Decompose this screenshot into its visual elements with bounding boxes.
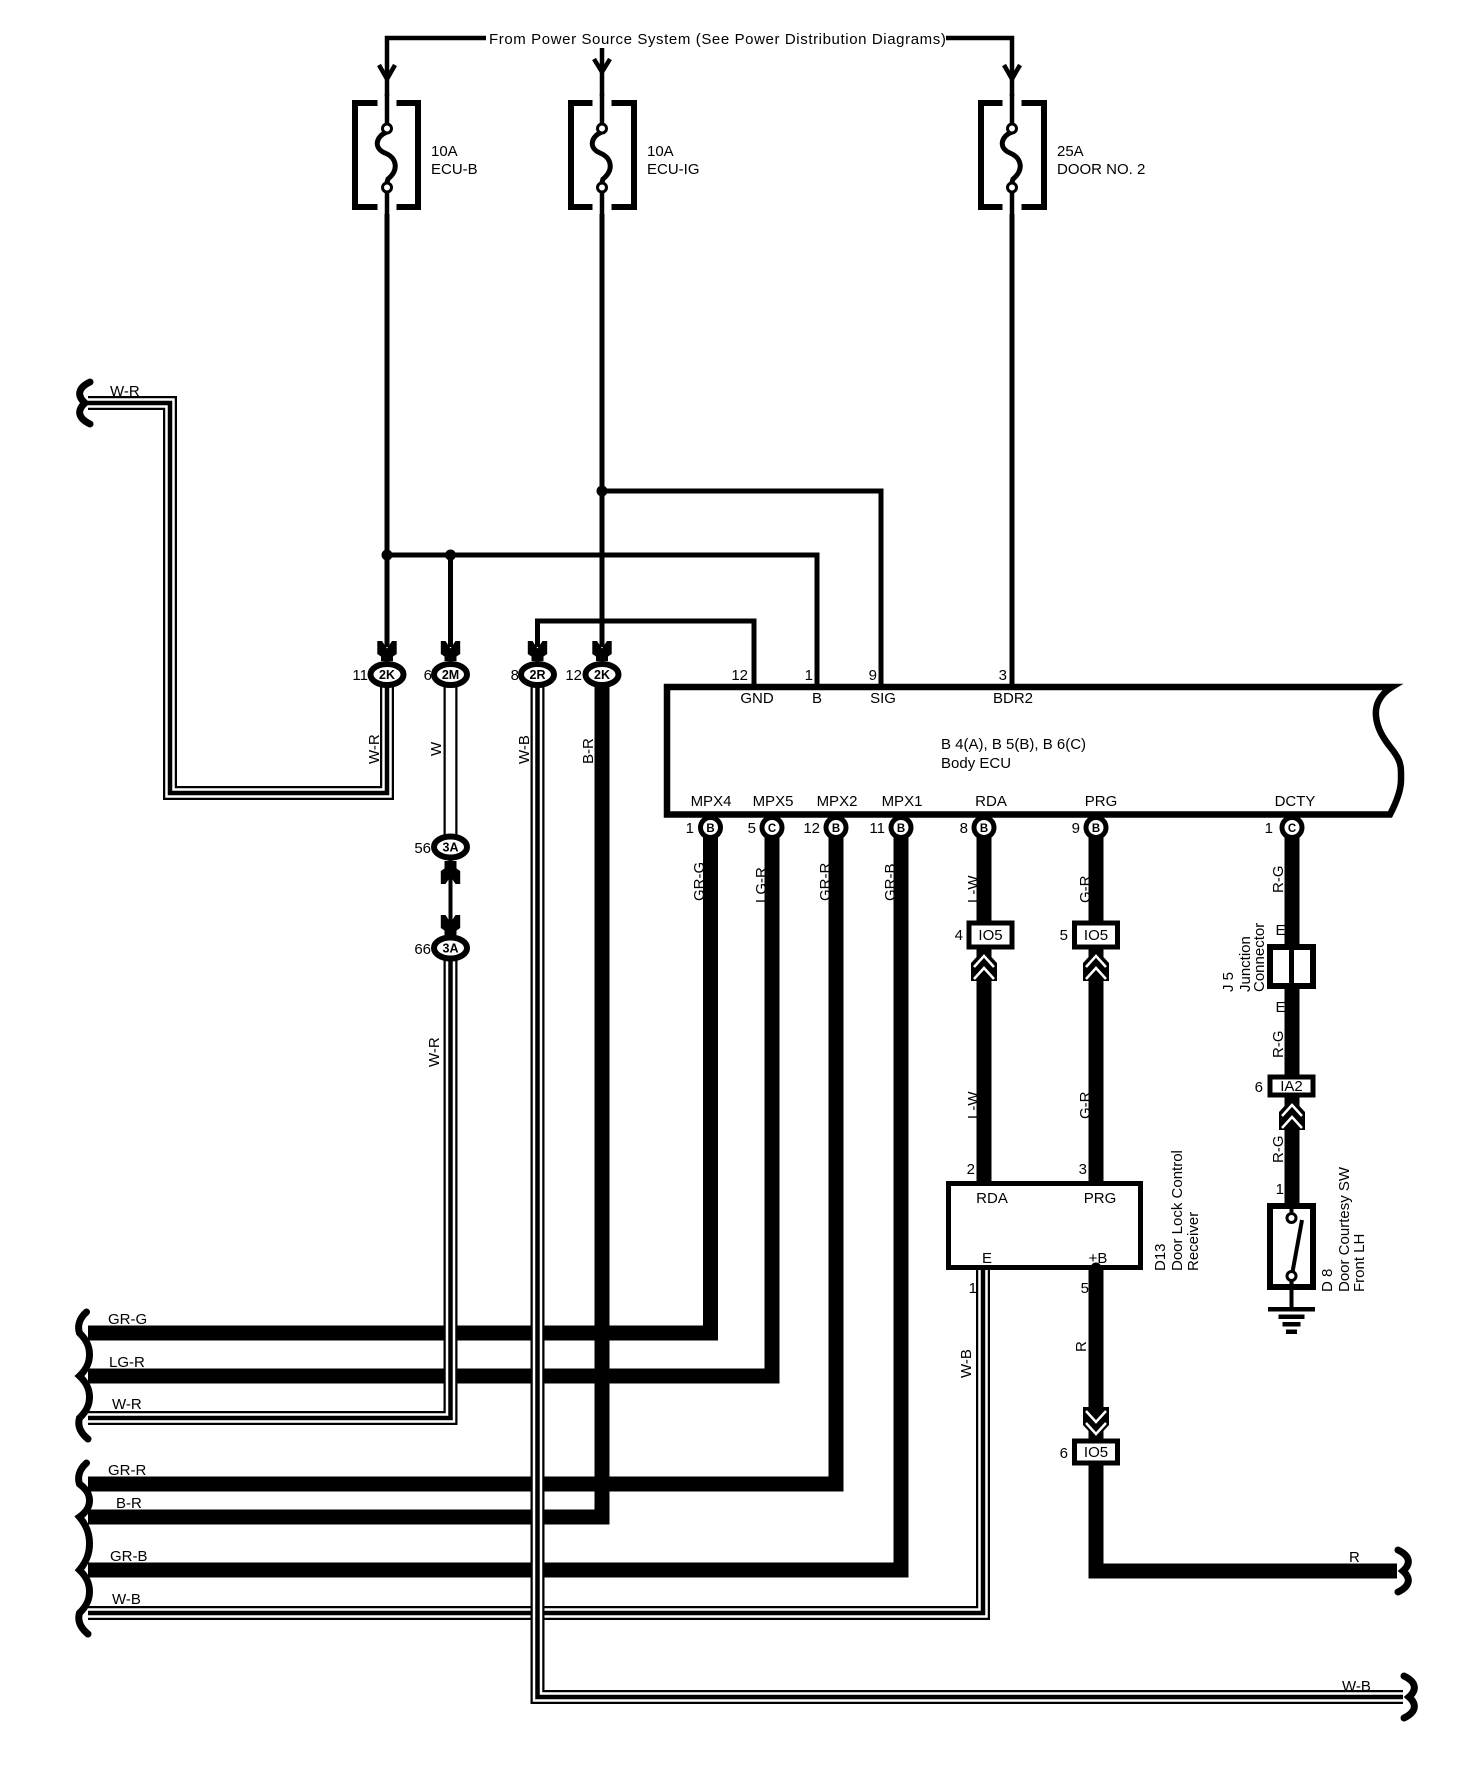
box Body ECU B4(A) B5(B) B6(C) (667, 687, 1401, 815)
wire LG-R (MPX5 pin to left edge) (88, 830, 772, 1376)
connector 2R pin8 (521, 641, 554, 685)
arrow into connector IO5-5 (up) (1083, 949, 1109, 981)
svg-text:6: 6 (1060, 1445, 1068, 1462)
wire GR-R (MPX2 pin to left edge) (88, 830, 836, 1484)
svg-text:Door Lock Control: Door Lock Control (1169, 1150, 1186, 1271)
wire node SIG: branch to Body ECU pin SIG (602, 491, 881, 686)
wire R-G (J5 to IA2) (1285, 986, 1300, 1077)
svg-text:E: E (982, 1250, 992, 1267)
svg-text:B: B (1092, 823, 1100, 835)
svg-text:1: 1 (686, 820, 694, 837)
svg-text:W-R: W-R (112, 1396, 142, 1413)
svg-text:D 8: D 8 (1319, 1269, 1336, 1292)
arrow into fuse ECU-B (379, 59, 1020, 79)
svg-text:2R: 2R (530, 668, 546, 682)
pin RDA 8(B) (974, 818, 994, 838)
pin DCTY 1(C) (1282, 818, 1302, 838)
wire G-R (IO5-5 to D13 PRG) (1089, 946, 1104, 1183)
svg-text:2K: 2K (379, 668, 395, 682)
svg-text:RDA: RDA (975, 793, 1007, 810)
connector 2M pin6 (434, 641, 467, 685)
svg-text:4: 4 (955, 927, 963, 944)
svg-text:B 4(A), B 5(B), B 6(C): B 4(A), B 5(B), B 6(C) (941, 736, 1086, 753)
arrow into connector IO5-6 (down) (1083, 1407, 1109, 1439)
fuse 10A ECU-B (355, 94, 418, 216)
svg-text:W-R: W-R (366, 734, 383, 764)
svg-text:DOOR NO. 2: DOOR NO. 2 (1057, 161, 1145, 178)
fuse 25A DOOR NO.2 (981, 94, 1044, 216)
connector IO5 pin4 (969, 923, 1012, 947)
svg-text:B-R: B-R (116, 1495, 142, 1512)
svg-text:C: C (768, 823, 776, 835)
svg-text:RDA: RDA (976, 1190, 1008, 1207)
svg-text:9: 9 (1072, 820, 1080, 837)
svg-text:W-B: W-B (958, 1349, 975, 1378)
svg-text:LG-R: LG-R (753, 867, 770, 903)
svg-text:W-B: W-B (516, 735, 533, 764)
svg-text:G-R: G-R (1077, 1091, 1094, 1119)
svg-text:B: B (897, 823, 905, 835)
ground below D8 (1268, 1307, 1315, 1334)
svg-text:W: W (428, 741, 445, 756)
wire node B: branch to Body ECU pin B (387, 555, 817, 686)
svg-text:B: B (980, 823, 988, 835)
pin MPX5 5(C) (762, 818, 782, 838)
svg-text:B: B (706, 823, 714, 835)
svg-text:Body ECU: Body ECU (941, 755, 1011, 772)
svg-text:2M: 2M (442, 668, 459, 682)
svg-text:R-G: R-G (1270, 1031, 1287, 1059)
svg-text:G-R: G-R (1077, 875, 1094, 903)
svg-text:2K: 2K (594, 668, 610, 682)
svg-text:Receiver: Receiver (1185, 1212, 1202, 1271)
svg-text:GR-G: GR-G (108, 1311, 147, 1328)
svg-text:25A: 25A (1057, 143, 1084, 160)
svg-text:2: 2 (967, 1161, 975, 1178)
wire branch to connector 2M pin6 (448, 555, 453, 647)
wire G-R (PRG pin to connector IO5-5) (1089, 830, 1104, 923)
svg-text:5: 5 (1060, 927, 1068, 944)
wire W-R (connector 3A-66 to left edge, striped) (88, 946, 451, 1418)
wire R (D13 +B to IO5-6) (1089, 1268, 1104, 1440)
svg-text:DCTY: DCTY (1275, 793, 1316, 810)
wire Body ECU pin GND to connector 2R pin8 (538, 621, 755, 686)
svg-text:5: 5 (748, 820, 756, 837)
svg-text:ECU-IG: ECU-IG (647, 161, 700, 178)
svg-text:3: 3 (999, 667, 1007, 684)
svg-text:B-R: B-R (580, 738, 597, 764)
fuse 10A ECU-IG (571, 94, 634, 216)
brace R right (1398, 1550, 1408, 1592)
svg-text:GR-R: GR-R (817, 863, 834, 901)
wire fuse ECU-IG to connector 2K pin12 (600, 210, 605, 647)
brace W-R top left (80, 382, 90, 424)
wire W (2M pin6 to connector 3A) (444, 686, 458, 848)
wire GR-B (MPX1 pin to left edge) (88, 830, 901, 1570)
svg-text:IO5: IO5 (1084, 1444, 1108, 1461)
svg-text:C: C (1288, 823, 1296, 835)
wire L-W (IO5-4 to D13 RDA) (977, 946, 992, 1183)
svg-text:10A: 10A (431, 143, 458, 160)
svg-text:+B: +B (1089, 1250, 1108, 1267)
svg-text:J 5: J 5 (1220, 972, 1237, 992)
svg-text:56: 56 (414, 840, 431, 857)
svg-text:W-B: W-B (112, 1591, 141, 1608)
svg-text:3A: 3A (443, 942, 459, 956)
svg-text:GR-G: GR-G (691, 862, 708, 901)
svg-text:R-G: R-G (1270, 866, 1287, 894)
connector 2K pin11 (371, 641, 404, 685)
brace group GR-R / B-R / GR-B / W-B (79, 1463, 90, 1634)
connector 2K pin12 (586, 641, 619, 685)
svg-text:GR-R: GR-R (108, 1462, 146, 1479)
svg-text:Front LH: Front LH (1351, 1234, 1368, 1292)
svg-text:E: E (1275, 922, 1285, 939)
svg-text:R-G: R-G (1270, 1136, 1287, 1164)
svg-text:1: 1 (1265, 820, 1273, 837)
node: junction D13 +B pin dot (1091, 1263, 1102, 1274)
wire W-B (2R pin8 to bottom right edge, striped) (538, 686, 1404, 1697)
wire L-W (RDA pin to connector IO5-4) (977, 830, 992, 923)
svg-text:GND: GND (740, 690, 774, 707)
svg-text:L-W: L-W (965, 1091, 982, 1119)
svg-text:5: 5 (1081, 1280, 1089, 1297)
wire R-G (IA2 to D8 switch) (1285, 1096, 1300, 1205)
wire W-B (D13 pin E to left edge, striped) (88, 1268, 983, 1613)
svg-text:8: 8 (511, 667, 519, 684)
wire B-R (2K pin12 to left edge) (88, 672, 602, 1517)
connector 3A pin66 (434, 915, 467, 959)
svg-text:B: B (832, 823, 840, 835)
svg-text:W-R: W-R (426, 1037, 443, 1067)
svg-text:3: 3 (1079, 1161, 1087, 1178)
svg-text:12: 12 (731, 667, 748, 684)
connector IO5 pin6 (1075, 1441, 1118, 1463)
svg-text:D13: D13 (1152, 1243, 1169, 1271)
svg-text:11: 11 (869, 820, 885, 837)
svg-text:6: 6 (1255, 1079, 1263, 1096)
brace group GR-G / LG-R / W-R (79, 1312, 90, 1439)
svg-text:MPX4: MPX4 (691, 793, 732, 810)
svg-text:12: 12 (565, 667, 582, 684)
wire R-G (DCTY pin to J5) (1285, 830, 1300, 947)
svg-text:9: 9 (869, 667, 877, 684)
svg-text:6: 6 (424, 667, 432, 684)
svg-text:B: B (812, 690, 822, 707)
svg-text:1: 1 (969, 1280, 977, 1297)
svg-text:ECU-B: ECU-B (431, 161, 478, 178)
brace W-B right (1404, 1676, 1414, 1718)
connector IA2 pin6 (1270, 1077, 1313, 1095)
svg-text:11: 11 (352, 667, 368, 684)
svg-text:PRG: PRG (1085, 793, 1118, 810)
connector 3A pin56 (434, 837, 467, 930)
pin PRG 9(B) (1086, 818, 1106, 838)
svg-text:E: E (1275, 999, 1285, 1016)
svg-text:MPX1: MPX1 (882, 793, 923, 810)
pin MPX1 11(B) (891, 818, 911, 838)
svg-text:Connector: Connector (1251, 923, 1268, 992)
wire W-R (left edge to 2K pin11, striped) (88, 403, 387, 793)
node: junction ECU-B / B line (382, 550, 393, 561)
node: junction D13 +B pin (1091, 1263, 1102, 1274)
box D13 Door Lock Control Receiver (949, 1184, 1141, 1268)
node: junction ECU-IG / SIG line (597, 486, 608, 497)
pin MPX4 1(B) (701, 818, 721, 838)
svg-text:BDR2: BDR2 (993, 690, 1033, 707)
wire from power source to fuse ECU-IG (600, 48, 605, 100)
wire fuse DOOR NO.2 to Body ECU pin BDR2 (1010, 210, 1015, 686)
svg-text:W-B: W-B (1342, 1678, 1371, 1695)
svg-text:W-R: W-R (110, 383, 140, 400)
svg-text:R: R (1073, 1341, 1090, 1352)
svg-text:3A: 3A (443, 841, 459, 855)
wire from power source to fuse DOOR NO.2 (946, 38, 1012, 100)
svg-text:GR-B: GR-B (882, 864, 899, 902)
wire R (IO5-6 to right edge) (1096, 1463, 1397, 1571)
svg-text:1: 1 (1276, 1181, 1284, 1198)
svg-text:MPX2: MPX2 (817, 793, 858, 810)
svg-text:IO5: IO5 (978, 927, 1002, 944)
svg-text:8: 8 (960, 820, 968, 837)
svg-text:L-W: L-W (965, 875, 982, 903)
svg-text:10A: 10A (647, 143, 674, 160)
svg-text:SIG: SIG (870, 690, 896, 707)
node: junction branch to 2M (445, 550, 456, 561)
arrow into connector IO5-4 (up) (971, 949, 997, 981)
wire GR-G (MPX4 pin to left edge) (88, 830, 711, 1333)
svg-text:1: 1 (805, 667, 813, 684)
svg-text:R: R (1349, 1549, 1360, 1566)
svg-text:66: 66 (414, 941, 431, 958)
svg-text:GR-B: GR-B (110, 1548, 148, 1565)
wire fuse ECU-B to connector 2K pin11 (385, 210, 390, 647)
connector J5 junction connector (1270, 947, 1313, 986)
svg-text:12: 12 (803, 820, 820, 837)
pin MPX2 12(B) (826, 818, 846, 838)
svg-text:PRG: PRG (1084, 1190, 1117, 1207)
connector IO5 pin5 (1075, 923, 1118, 947)
svg-text:LG-R: LG-R (109, 1354, 145, 1371)
svg-text:IO5: IO5 (1084, 927, 1108, 944)
switch D8 Door Courtesy SW Front LH (1270, 1203, 1313, 1308)
wire from power source to fuse ECU-B (387, 38, 486, 100)
svg-text:MPX5: MPX5 (753, 793, 794, 810)
svg-text:IA2: IA2 (1280, 1078, 1303, 1095)
svg-text:From Power Source System (See: From Power Source System (See Power Dist… (489, 31, 946, 48)
arrow into connector IA2 (up) (1279, 1098, 1305, 1130)
